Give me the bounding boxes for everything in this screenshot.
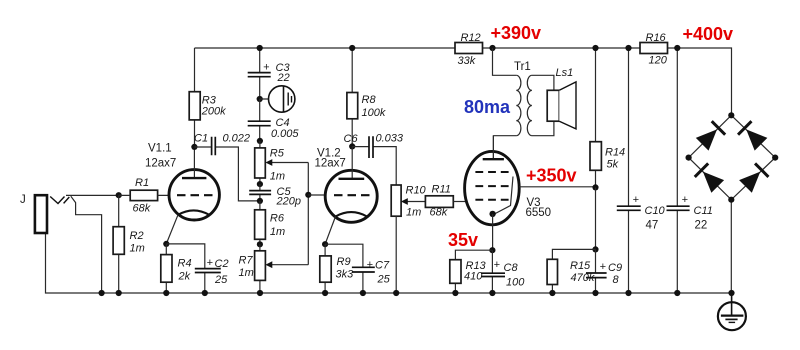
- svg-text:R15: R15: [570, 260, 591, 272]
- svg-text:+: +: [263, 62, 270, 74]
- diode D1 top-left: [695, 121, 725, 151]
- svg-text:120: 120: [649, 55, 668, 67]
- node V3 cathode junction: [489, 247, 495, 253]
- node C10 top rail junction: [625, 45, 631, 51]
- capacitor C9 electrolytic: [586, 249, 622, 293]
- node C11 +400v rail junction: [674, 45, 680, 51]
- node R4 ground junction: [163, 290, 169, 296]
- svg-text:Ls1: Ls1: [556, 67, 574, 79]
- resistor R5 potentiometer: [255, 141, 309, 184]
- resistor R1: [119, 177, 170, 215]
- node R15/C9 junction: [592, 246, 598, 252]
- lamp indicator: [257, 86, 295, 112]
- capacitor C3 electrolytic: [248, 48, 291, 99]
- svg-text:Tr1: Tr1: [514, 61, 531, 73]
- svg-text:35v: 35v: [448, 230, 478, 250]
- capacitor C6: [344, 133, 404, 186]
- capacitor C4: [248, 99, 300, 141]
- svg-text:+: +: [633, 194, 640, 206]
- node +390v junction: [489, 45, 495, 51]
- node C7 ground junction: [360, 290, 366, 296]
- svg-text:+400v: +400v: [683, 24, 734, 44]
- node R2 ground junction: [116, 290, 122, 296]
- diode D3 bottom-left: [695, 163, 725, 193]
- node input junction: [116, 192, 122, 198]
- node R8 top rail junction: [349, 45, 355, 51]
- svg-text:1m: 1m: [130, 243, 145, 255]
- ground earth symbol: [718, 293, 746, 330]
- capacitor C1: [194, 133, 260, 201]
- svg-text:12ax7: 12ax7: [315, 158, 346, 170]
- capacitor C5: [249, 181, 301, 208]
- connector J input jack: [20, 194, 119, 293]
- svg-text:410: 410: [464, 271, 483, 283]
- node bridge ground junction: [728, 290, 734, 296]
- wire top supply rail: [195, 48, 732, 115]
- svg-text:V1.1: V1.1: [148, 143, 172, 155]
- svg-text:1m: 1m: [406, 207, 421, 219]
- resistor R10 potentiometer: [391, 185, 426, 294]
- svg-text:C9: C9: [608, 262, 622, 274]
- capacitor C10 electrolytic: [617, 48, 666, 293]
- svg-text:+390v: +390v: [491, 23, 542, 43]
- node C11 ground junction: [674, 290, 680, 296]
- svg-text:R8: R8: [362, 94, 377, 106]
- node bridge bottom (-): [728, 197, 734, 203]
- capacitor C8 electrolytic: [481, 250, 525, 293]
- svg-text:R14: R14: [605, 147, 625, 159]
- svg-text:+350v: +350v: [526, 166, 577, 186]
- svg-text:J: J: [20, 194, 26, 206]
- tube V3 6550 pentode: [465, 136, 551, 251]
- svg-text:+: +: [494, 259, 501, 271]
- capacitor C11 electrolytic: [667, 48, 713, 293]
- node R10 ground junction: [393, 290, 399, 296]
- wire to V1.2 grid: [308, 194, 325, 196]
- node C3 top rail junction: [257, 45, 263, 51]
- node R9 ground junction: [322, 290, 328, 296]
- svg-text:2k: 2k: [178, 271, 191, 283]
- resistor R13: [450, 250, 493, 293]
- svg-text:C11: C11: [694, 205, 713, 217]
- svg-text:R16: R16: [646, 32, 667, 44]
- transformer Tr1: [493, 48, 554, 159]
- svg-text:R4: R4: [178, 258, 192, 270]
- capacitor C2 electrolytic: [166, 244, 228, 293]
- svg-text:C7: C7: [375, 260, 390, 272]
- svg-text:R9: R9: [337, 256, 351, 268]
- node plate V1.2 / C6: [349, 143, 355, 149]
- svg-text:8: 8: [613, 274, 620, 286]
- svg-text:0.033: 0.033: [376, 133, 404, 145]
- diode D2 top-right: [738, 121, 768, 151]
- diode bridge wires: [689, 115, 776, 199]
- svg-text:33k: 33k: [458, 55, 476, 67]
- svg-text:1m: 1m: [270, 171, 285, 183]
- node bridge right AC: [772, 155, 778, 161]
- node C2 ground junction: [202, 290, 208, 296]
- tube V1.2 12ax7 triode: [315, 146, 378, 244]
- svg-text:C1: C1: [194, 133, 208, 145]
- svg-text:200k: 200k: [201, 106, 226, 118]
- resistor R15: [547, 249, 595, 293]
- svg-text:C10: C10: [645, 205, 666, 217]
- svg-text:5k: 5k: [607, 159, 619, 171]
- svg-text:0.005: 0.005: [271, 128, 299, 140]
- svg-text:1m: 1m: [270, 226, 285, 238]
- svg-text:0.022: 0.022: [223, 133, 251, 145]
- resistor R14: [590, 48, 625, 187]
- wire bridge bottom to ground: [730, 200, 732, 293]
- svg-text:100: 100: [506, 277, 525, 289]
- svg-text:C8: C8: [504, 262, 519, 274]
- svg-text:25: 25: [377, 274, 391, 286]
- node C4 / R5: [257, 138, 263, 144]
- node R13 ground junction: [452, 290, 458, 296]
- svg-text:R6: R6: [270, 213, 285, 225]
- node C9 ground junction: [592, 290, 598, 296]
- svg-text:+: +: [367, 259, 374, 271]
- resistor R4: [161, 241, 192, 293]
- svg-text:1m: 1m: [239, 267, 254, 279]
- svg-text:220p: 220p: [276, 196, 301, 208]
- resistor R2: [113, 195, 145, 293]
- svg-text:68k: 68k: [133, 203, 151, 215]
- capacitor C7 electrolytic: [325, 244, 391, 293]
- wire bottom ground rail: [46, 233, 732, 293]
- svg-text:R11: R11: [432, 184, 451, 196]
- svg-text:80ma: 80ma: [464, 97, 511, 117]
- resistor R11: [425, 184, 465, 219]
- node +350v / R14: [592, 184, 598, 190]
- resistor R8: [347, 48, 386, 146]
- svg-text:22: 22: [695, 220, 708, 232]
- svg-text:R10: R10: [406, 185, 427, 197]
- svg-text:R2: R2: [130, 230, 144, 242]
- node plate V1.1 / C1: [191, 144, 197, 150]
- wire R14 node down: [595, 187, 597, 249]
- svg-text:6550: 6550: [526, 207, 552, 219]
- svg-text:3k3: 3k3: [336, 269, 355, 281]
- svg-text:47: 47: [646, 220, 659, 232]
- node divider to V1.2 grid: [305, 192, 311, 198]
- diode D4 bottom-right: [739, 163, 769, 193]
- speaker Ls1: [547, 67, 576, 129]
- svg-text:22: 22: [277, 72, 290, 84]
- node R14 top rail junction: [592, 45, 598, 51]
- svg-text:R5: R5: [270, 148, 285, 160]
- svg-text:100k: 100k: [362, 107, 386, 119]
- node C10 ground junction: [625, 290, 631, 296]
- resistor R3: [189, 48, 226, 147]
- resistor R16: [640, 32, 668, 67]
- resistor R7 potentiometer: [239, 163, 309, 294]
- svg-text:C6: C6: [344, 133, 359, 145]
- svg-text:12ax7: 12ax7: [145, 158, 176, 170]
- resistor R12: [455, 32, 483, 67]
- node R7 ground junction: [257, 290, 263, 296]
- node C8 ground junction: [489, 290, 495, 296]
- svg-text:R1: R1: [135, 177, 149, 189]
- node bridge top (+): [728, 112, 734, 118]
- svg-text:+: +: [207, 257, 214, 269]
- resistor R9: [320, 241, 354, 293]
- resistor R6: [255, 201, 286, 248]
- svg-text:+: +: [600, 261, 607, 273]
- node jack sleeve ground junction: [99, 290, 105, 296]
- node R15 ground junction: [549, 290, 555, 296]
- svg-text:C2: C2: [215, 258, 229, 270]
- tube V1.1 12ax7 triode: [145, 143, 219, 244]
- wire screen to R14 node: [519, 186, 595, 188]
- svg-text:25: 25: [214, 274, 228, 286]
- svg-text:68k: 68k: [430, 207, 448, 219]
- svg-text:R7: R7: [239, 255, 254, 267]
- node bridge left AC: [686, 155, 692, 161]
- svg-text:R12: R12: [461, 32, 481, 44]
- svg-text:+: +: [682, 194, 689, 206]
